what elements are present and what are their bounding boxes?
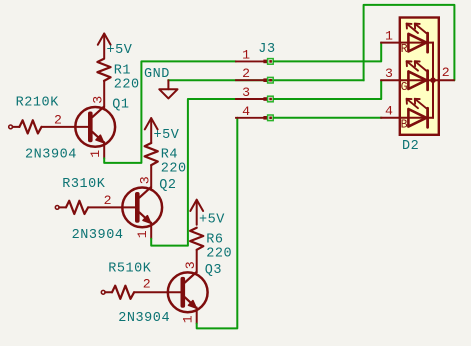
Q1 emitter stub (103, 142, 105, 158)
resistor R3 pin circle (55, 206, 59, 210)
svg-text:2: 2 (54, 112, 62, 127)
connector J3 pin 3 (236, 98, 267, 100)
power +5V (R4) (150, 118, 152, 143)
svg-text:R310K: R310K (62, 177, 106, 192)
LED D2 cathode bus (432, 43, 434, 118)
svg-text:1: 1 (242, 47, 250, 62)
resistor R2 (19, 120, 41, 133)
resistor R3 stub (59, 206, 66, 208)
LED D2 blue element (381, 117, 433, 119)
LED D2 green element (381, 79, 433, 81)
svg-text:3: 3 (385, 66, 393, 81)
svg-text:Q2: Q2 (159, 178, 176, 193)
svg-text:R210K: R210K (16, 95, 60, 110)
transistor Q3 (168, 272, 208, 312)
svg-text:220: 220 (114, 78, 140, 93)
svg-text:2: 2 (242, 66, 250, 81)
svg-text:2: 2 (143, 276, 151, 291)
wire J3 pin4 to D2 pin4 (274, 117, 382, 119)
svg-text:1: 1 (180, 315, 195, 323)
svg-text:3: 3 (242, 85, 250, 100)
svg-text:4: 4 (385, 104, 393, 119)
resistor R5 (112, 286, 134, 299)
svg-text:R6: R6 (206, 232, 223, 247)
wire J3 pin3 to D2 pin3 (274, 80, 382, 99)
connector J3 pin 1 (236, 60, 267, 62)
wire Q1 emitter to J3 pin1 (104, 61, 236, 162)
svg-text:+5V: +5V (199, 212, 225, 227)
svg-text:R510K: R510K (108, 262, 152, 277)
resistor R4 (145, 143, 158, 165)
svg-text:3: 3 (91, 95, 106, 103)
svg-text:1: 1 (88, 149, 103, 157)
wire Q2 emitter to J3 pin3 (151, 99, 236, 246)
svg-text:2: 2 (442, 65, 450, 80)
svg-text:+5V: +5V (154, 128, 180, 143)
transistor Q2 (122, 188, 162, 228)
svg-text:D2: D2 (402, 139, 419, 154)
wire R3 to Q2 base (88, 206, 135, 208)
svg-text:B: B (401, 118, 408, 131)
junction dot D2 pin2 (430, 77, 436, 83)
Q3 emitter stub (196, 308, 198, 324)
power +5V (R6) (196, 200, 198, 225)
svg-text:J3: J3 (258, 42, 275, 57)
svg-text:G: G (401, 81, 408, 94)
svg-text:R: R (401, 43, 408, 56)
resistor R2 stub (13, 126, 20, 128)
svg-text:2N3904: 2N3904 (25, 148, 77, 163)
svg-text:4: 4 (242, 104, 250, 119)
svg-text:2N3904: 2N3904 (72, 228, 124, 243)
power +5V (R1) (103, 34, 105, 59)
svg-text:3: 3 (183, 261, 198, 269)
resistor R6 (190, 228, 203, 250)
resistor R2 pin circle (9, 125, 13, 129)
wire Q3 emitter to J3 pin4 (197, 118, 238, 329)
LED D2 red element (381, 42, 433, 44)
wire R4 to Q2 collector (150, 165, 152, 188)
connector J3 pin 4 (236, 117, 267, 119)
svg-text:GND: GND (144, 67, 170, 82)
svg-text:1: 1 (135, 230, 150, 238)
wire R2 to Q1 base (42, 126, 89, 128)
svg-text:Q3: Q3 (205, 263, 222, 278)
wire R1 to Q1 collector (103, 81, 105, 107)
LED D2 body (400, 18, 439, 135)
resistor R3 (66, 201, 88, 214)
wire J3 pin1 to D2 pin1 (274, 43, 382, 62)
svg-text:2N3904: 2N3904 (118, 311, 170, 326)
wire R6 to Q3 collector (196, 250, 198, 273)
connector J3 pin 2 (236, 79, 267, 81)
transistor Q1 (75, 107, 115, 147)
svg-text:220: 220 (161, 162, 187, 177)
wire R5 to Q3 base (134, 291, 180, 293)
svg-text:Q1: Q1 (112, 97, 129, 112)
wire GND to J3 pin2 (168, 79, 363, 81)
svg-text:R4: R4 (161, 148, 178, 163)
wire J3 pin2 riser over top to D2 pin2 (364, 5, 455, 80)
resistor R5 stub (105, 291, 112, 293)
svg-text:1: 1 (385, 28, 393, 43)
Q2 emitter stub (150, 223, 152, 239)
resistor R1 (97, 59, 110, 81)
svg-text:220: 220 (206, 246, 232, 261)
LED D2 pin 2 (433, 79, 454, 81)
svg-text:3: 3 (138, 176, 153, 184)
svg-text:R1: R1 (114, 64, 131, 79)
svg-text:2: 2 (104, 193, 112, 208)
resistor R5 pin circle (101, 290, 105, 294)
svg-text:+5V: +5V (107, 43, 133, 58)
ground GND (167, 80, 169, 89)
